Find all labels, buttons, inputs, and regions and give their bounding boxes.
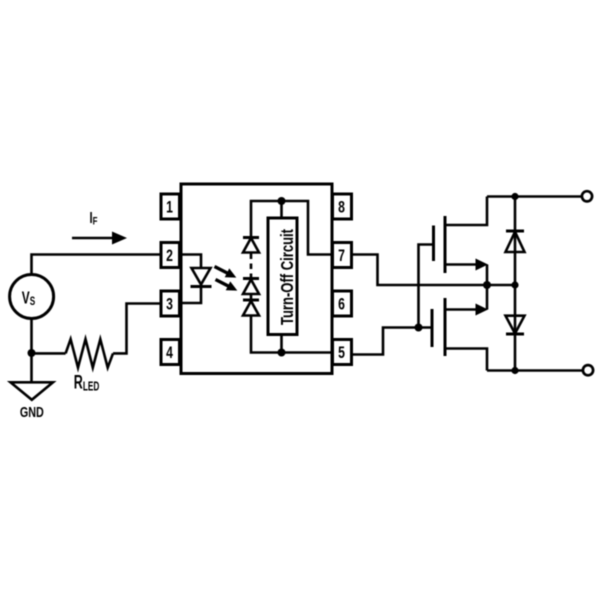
svg-text:8: 8 [338,199,345,217]
svg-text:5: 5 [338,344,345,362]
svg-text:3: 3 [166,296,173,314]
svg-text:1: 1 [166,199,173,217]
svg-text:Turn-Off Circuit: Turn-Off Circuit [278,229,297,325]
svg-text:2: 2 [166,247,173,265]
svg-text:7: 7 [338,247,345,265]
svg-text:GND: GND [20,403,44,420]
svg-text:6: 6 [338,296,345,314]
svg-text:4: 4 [166,344,173,362]
